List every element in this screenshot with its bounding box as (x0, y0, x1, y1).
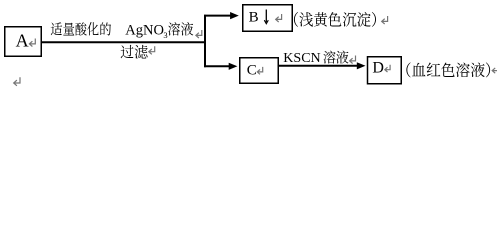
return mark inside box B (276, 14, 282, 22)
svg-text:C: C (247, 63, 257, 79)
arrowhead into box C (229, 63, 238, 70)
svg-text:A: A (16, 31, 29, 51)
precipitate down-arrow in box B (264, 10, 268, 24)
top branch wire (204, 15, 231, 17)
arrowhead into box B (230, 12, 239, 19)
arrowhead into box D (357, 62, 366, 69)
return mark after blood red caption (492, 65, 497, 73)
svg-text:KSCN溶液: KSCN溶液 (283, 48, 349, 68)
svg-text:过滤: 过滤 (120, 41, 148, 62)
box D (368, 57, 402, 84)
return mark after reagent text (196, 30, 202, 38)
bottom branch wire (204, 65, 230, 67)
return mark after KSCN label (350, 56, 356, 64)
box A (5, 27, 42, 57)
svg-text:适量酸化的AgNO3溶液: 适量酸化的AgNO3溶液 (50, 19, 193, 41)
return mark after filter text (149, 46, 155, 54)
svg-text:（浅黄色沉淀）: （浅黄色沉淀） (285, 7, 386, 30)
svg-text:（血红色溶液）: （血红色溶液） (397, 58, 497, 81)
return mark inside box C (257, 67, 262, 74)
standalone paragraph return mark bottom left (14, 77, 20, 86)
wire C to D (279, 65, 357, 67)
branch vertical wire (204, 15, 206, 67)
wire A to branch point (42, 41, 206, 43)
box B (243, 5, 293, 32)
svg-text:B: B (249, 10, 259, 26)
svg-text:D: D (372, 60, 384, 77)
return mark after pale yellow caption (382, 16, 388, 24)
return mark after A (29, 39, 35, 47)
return mark inside box D (385, 65, 390, 72)
box C (240, 58, 279, 84)
